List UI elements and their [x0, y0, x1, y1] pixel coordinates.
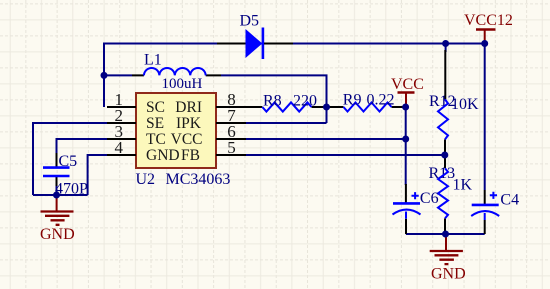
svg-text:GND: GND	[431, 266, 466, 283]
pin 6 VCC	[171, 122, 246, 148]
pin 3 TC	[107, 122, 166, 148]
resistor R12	[429, 50, 479, 155]
svg-text:100uH: 100uH	[162, 76, 203, 92]
power port VCC12	[464, 12, 513, 44]
wire pin5	[245, 154, 445, 156]
svg-text:R13: R13	[429, 165, 456, 182]
wire pin3	[57, 138, 111, 153]
wire L1 feed	[104, 74, 132, 76]
resistor R9	[328, 92, 406, 112]
node junction R12-R13	[441, 152, 448, 159]
svg-text:4: 4	[115, 138, 124, 157]
svg-text:GND: GND	[146, 147, 180, 164]
pin 7 IPK	[176, 106, 246, 132]
svg-text:1K: 1K	[453, 177, 473, 194]
wire L1 to pin7 branch	[221, 75, 327, 123]
node junction pin6	[402, 136, 409, 143]
svg-text:VCC12: VCC12	[464, 12, 513, 29]
resistor R8	[216, 93, 327, 112]
svg-text:C6: C6	[420, 190, 439, 207]
resistor R13	[429, 155, 473, 234]
pin 5 FB	[181, 138, 246, 164]
node junction bottom rail	[442, 231, 449, 238]
svg-text:SE: SE	[146, 115, 164, 132]
wire C5 bottom	[56, 186, 58, 195]
svg-text:C4: C4	[500, 192, 519, 209]
node junction R8-R9	[323, 104, 330, 111]
wire R12 top	[445, 44, 447, 53]
svg-text:TC: TC	[146, 131, 166, 148]
svg-text:VCC: VCC	[171, 131, 203, 148]
svg-text:SC: SC	[146, 99, 165, 116]
node junction VCC	[402, 104, 409, 111]
svg-text:D5: D5	[240, 13, 260, 30]
svg-text:R8: R8	[263, 93, 282, 110]
diode D5	[217, 13, 293, 60]
svg-text:5: 5	[227, 138, 236, 157]
svg-text:VCC: VCC	[391, 76, 424, 93]
pin 4 GND	[107, 138, 180, 164]
wire bottom rail	[406, 233, 485, 235]
wire pin4	[56, 154, 110, 195]
svg-text:L1: L1	[144, 52, 162, 69]
pin 2 SE	[107, 106, 164, 132]
wire VCC vertical	[405, 107, 407, 185]
svg-text:220: 220	[293, 93, 317, 110]
svg-text:GND: GND	[40, 226, 75, 243]
svg-text:DRI: DRI	[175, 99, 202, 116]
node junction top rail VCC12	[481, 40, 488, 47]
svg-text:0.22: 0.22	[367, 92, 395, 109]
svg-text:C5: C5	[59, 153, 78, 170]
node junction L1 feed	[101, 72, 108, 79]
pin 8 DRI	[175, 90, 246, 116]
wire pin7	[245, 122, 327, 124]
power port VCC	[391, 76, 424, 107]
node junction top rail R12	[442, 40, 449, 47]
svg-text:R9: R9	[343, 92, 362, 109]
svg-text:MC34063: MC34063	[166, 171, 231, 188]
ground GND right	[430, 234, 466, 283]
wire pin2	[33, 122, 110, 195]
ground GND left	[40, 195, 75, 243]
node junction C5-GND	[53, 192, 60, 199]
capacitor C4	[471, 44, 519, 235]
wire top rail	[104, 43, 485, 45]
pin 1 SC	[107, 90, 165, 116]
svg-text:U2: U2	[136, 171, 156, 188]
inductor L1	[132, 52, 221, 93]
svg-text:FB: FB	[181, 147, 200, 164]
wire pin6	[245, 138, 406, 140]
wire left vertical	[103, 43, 105, 108]
capacitor C6	[393, 184, 439, 234]
capacitor C5	[43, 153, 88, 198]
svg-text:IPK: IPK	[176, 115, 202, 132]
op-amp U2 MC34063	[136, 93, 231, 188]
svg-text:10K: 10K	[451, 96, 479, 113]
